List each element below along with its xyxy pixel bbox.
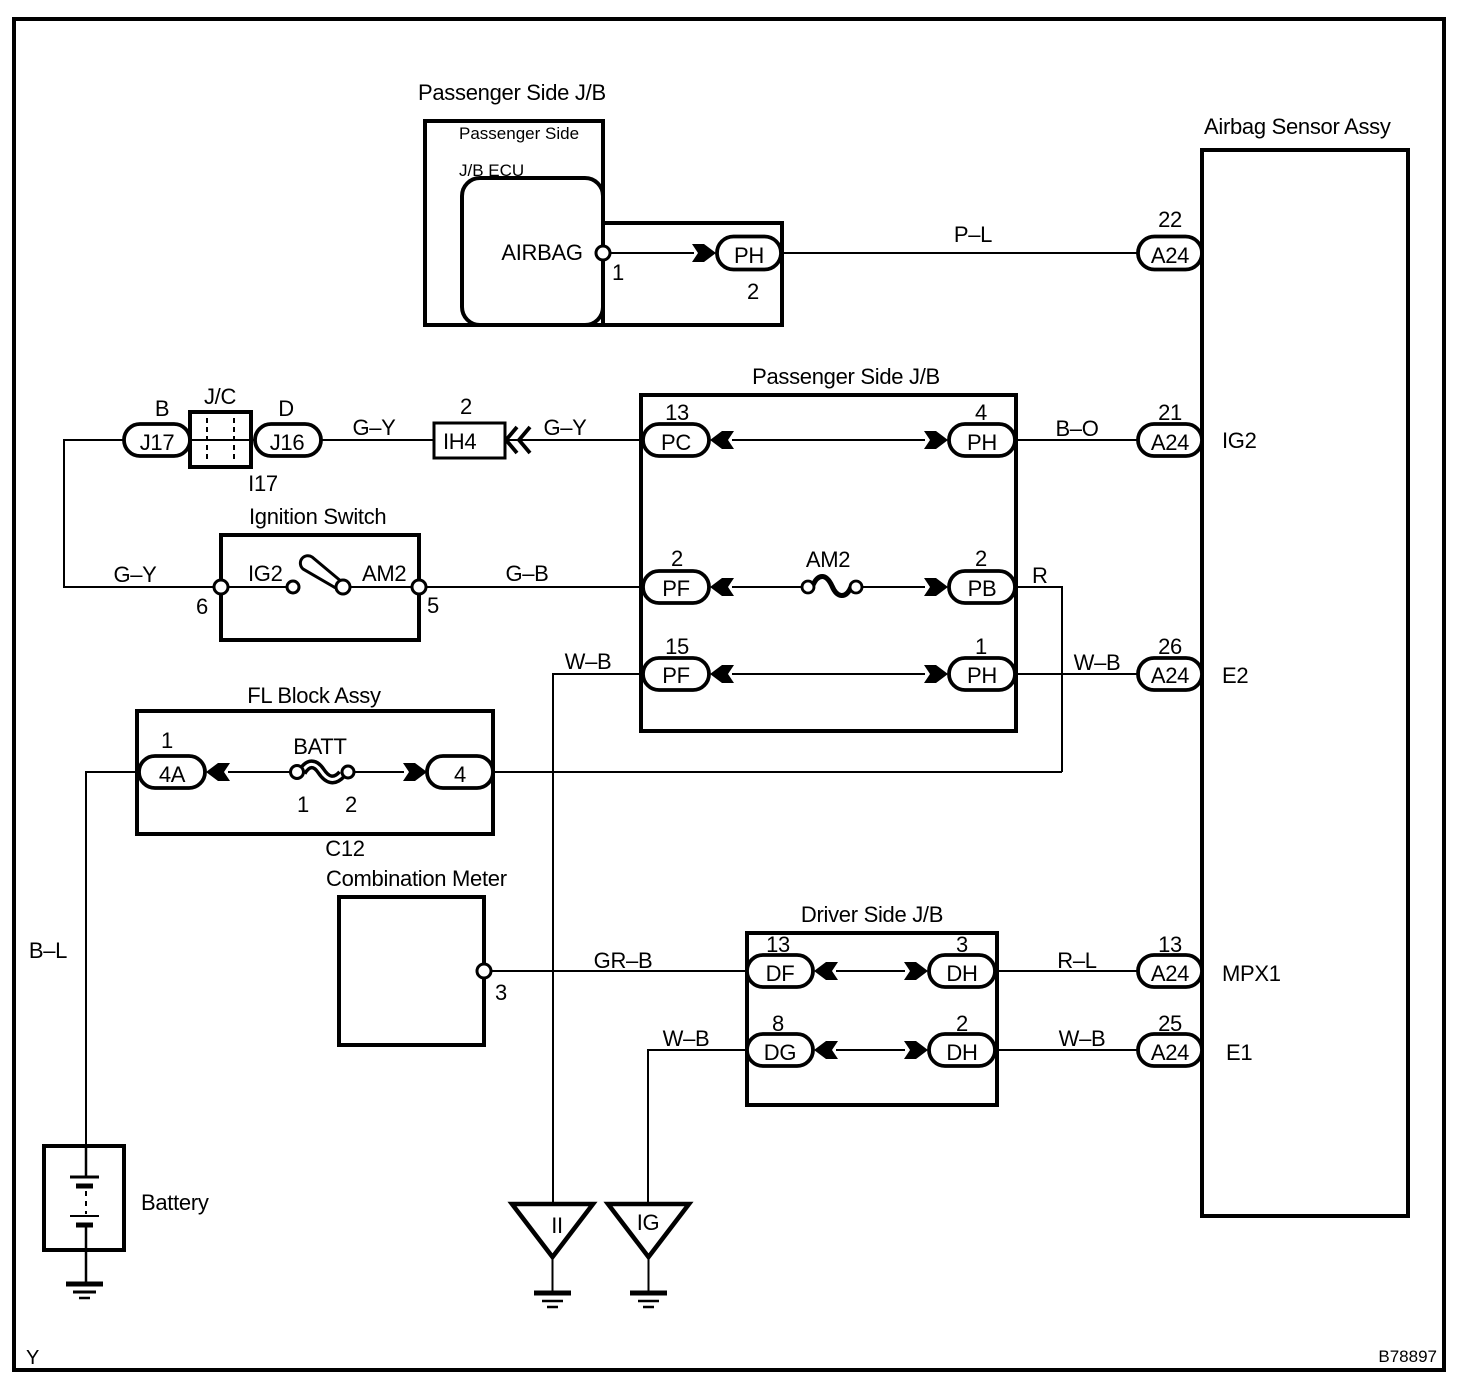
arrow out of PC <box>710 431 734 449</box>
svg-text:13: 13 <box>665 400 689 425</box>
svg-text:J17: J17 <box>140 430 175 455</box>
svg-text:D: D <box>278 396 294 421</box>
svg-text:W–B: W–B <box>1059 1026 1106 1051</box>
Airbag Sensor Assy box <box>1202 150 1408 1216</box>
connector 4A <box>139 756 205 788</box>
connector PF pin 15 <box>643 658 709 690</box>
svg-text:J16: J16 <box>270 430 305 455</box>
svg-text:GR–B: GR–B <box>594 948 653 973</box>
connector A24 pin 26 <box>1138 658 1202 690</box>
svg-text:AM2: AM2 <box>806 547 850 572</box>
wire IG to ground <box>648 1257 650 1292</box>
arrow into DH2 <box>904 1041 928 1059</box>
wire DG to DH2 <box>836 1049 905 1051</box>
wire IH4 to PC <box>505 439 643 441</box>
wire PF15 to PH1 <box>732 673 925 675</box>
svg-text:Driver Side J/B: Driver Side J/B <box>801 902 943 927</box>
Passenger Side J/B (middle) box <box>641 395 1016 731</box>
ground triangle II <box>512 1204 593 1257</box>
connector PH pin 4 <box>949 424 1015 456</box>
battery ground symbol <box>66 1284 103 1298</box>
svg-text:Battery: Battery <box>141 1190 209 1215</box>
connector J17 <box>124 424 190 456</box>
svg-text:PC: PC <box>661 430 691 455</box>
wire 4A to fusible link <box>228 771 291 773</box>
ground symbol IG <box>630 1293 667 1307</box>
connector A24 pin 25 <box>1138 1034 1202 1066</box>
svg-text:W–B: W–B <box>1074 650 1121 675</box>
arrow out of 4A <box>206 763 230 781</box>
svg-text:2: 2 <box>747 279 759 304</box>
wire link to arrow <box>354 771 404 773</box>
wire PF to fuse AM2 <box>732 586 802 588</box>
node pin 6 <box>214 580 228 594</box>
svg-text:R–L: R–L <box>1057 948 1097 973</box>
arrow out of PF15 <box>710 665 734 683</box>
switch contact circle <box>287 581 299 593</box>
connector A24 pin 13 <box>1138 955 1202 987</box>
ground symbol II <box>534 1293 571 1307</box>
wire PC to PH <box>732 439 925 441</box>
connector A24 pin 21 <box>1138 424 1202 456</box>
svg-text:B–O: B–O <box>1055 416 1098 441</box>
svg-text:4A: 4A <box>159 762 186 787</box>
wire GR-B meter to DF <box>491 970 747 972</box>
node pin 1 <box>596 246 610 260</box>
junction block: Passenger Side J/B (top) outline <box>425 121 603 325</box>
wire G-B pin5 to PF <box>426 586 643 588</box>
svg-text:1: 1 <box>161 728 173 753</box>
wire DF to DH3 <box>836 970 905 972</box>
svg-text:2: 2 <box>671 546 683 571</box>
connector PF pin 2 <box>643 571 709 603</box>
svg-text:G–B: G–B <box>505 561 548 586</box>
svg-text:BATT: BATT <box>293 734 346 759</box>
svg-text:P–L: P–L <box>954 222 992 247</box>
connector J16 <box>255 424 321 456</box>
switch lever <box>297 553 344 592</box>
svg-text:A24: A24 <box>1151 243 1189 268</box>
svg-text:1: 1 <box>297 792 309 817</box>
wire R-L DH to A24 pin 13 <box>995 970 1138 972</box>
svg-text:4: 4 <box>454 762 466 787</box>
Ignition Switch box <box>221 535 419 640</box>
arrow out of DF <box>814 962 838 980</box>
svg-text:E1: E1 <box>1226 1040 1252 1065</box>
wire J16 to IH4 <box>321 439 434 441</box>
wire B-O to A24 pin 21 <box>1015 439 1138 441</box>
svg-text:W–B: W–B <box>565 649 612 674</box>
svg-text:A24: A24 <box>1151 430 1189 455</box>
wire II to ground <box>552 1257 554 1292</box>
connector DG <box>747 1034 813 1066</box>
svg-text:26: 26 <box>1158 634 1182 659</box>
svg-text:DF: DF <box>766 961 795 986</box>
wire pivot to pin 5 <box>350 586 412 588</box>
svg-text:DG: DG <box>764 1040 796 1065</box>
arrow out of DG <box>814 1041 838 1059</box>
svg-text:R: R <box>1032 563 1048 588</box>
connector DF <box>747 955 813 987</box>
svg-text:Ignition Switch: Ignition Switch <box>249 504 386 529</box>
svg-text:Passenger Side J/B: Passenger Side J/B <box>418 80 606 105</box>
junction block: Passenger Side J/B (top) extension outline <box>603 223 782 325</box>
svg-text:A24: A24 <box>1151 961 1189 986</box>
arrow into PH1 <box>924 665 948 683</box>
wire W-B PH1 to A24 pin 26 <box>1015 673 1138 675</box>
svg-text:IG2: IG2 <box>248 561 283 586</box>
wire through J/C <box>190 439 255 441</box>
svg-text:E2: E2 <box>1222 663 1248 688</box>
svg-text:W–B: W–B <box>663 1026 710 1051</box>
svg-text:PH: PH <box>734 243 764 268</box>
connector PH (top) <box>717 237 781 270</box>
svg-text:G–Y: G–Y <box>352 415 396 440</box>
svg-text:B–L: B–L <box>29 938 67 963</box>
connector DH pin 3 <box>929 955 995 987</box>
svg-text:FL Block Assy: FL Block Assy <box>247 683 381 708</box>
arrow into 4 <box>403 763 427 781</box>
node pin 3 <box>477 964 491 978</box>
svg-text:4: 4 <box>975 400 987 425</box>
svg-text:Airbag Sensor Assy: Airbag Sensor Assy <box>1204 114 1391 139</box>
connector PC <box>643 424 709 456</box>
svg-text:A24: A24 <box>1151 1040 1189 1065</box>
svg-text:2: 2 <box>975 546 987 571</box>
svg-text:I17: I17 <box>248 471 278 496</box>
ground triangle IG <box>608 1204 689 1257</box>
svg-text:IG: IG <box>637 1210 660 1235</box>
svg-text:PF: PF <box>662 576 690 601</box>
wire W-B from DG down to IG ground <box>648 1050 747 1204</box>
svg-text:5: 5 <box>427 593 439 618</box>
connector PB <box>949 571 1015 603</box>
arrow into PB <box>924 578 948 596</box>
wire AIRBAG pin 1 to connector PH <box>603 252 694 254</box>
battery box <box>44 1146 124 1250</box>
chevrons <box>506 427 530 453</box>
wire pin6 to contact <box>228 586 287 588</box>
svg-text:J/C: J/C <box>204 384 237 409</box>
svg-text:DH: DH <box>946 1040 977 1065</box>
node pin 5 <box>412 580 426 594</box>
svg-text:21: 21 <box>1158 400 1182 425</box>
wire J17 down to ignition switch pin 6 <box>64 440 214 587</box>
svg-text:II: II <box>551 1213 563 1238</box>
svg-text:G–Y: G–Y <box>543 415 587 440</box>
svg-text:2: 2 <box>460 394 472 419</box>
svg-text:AIRBAG: AIRBAG <box>501 240 582 265</box>
arrow into DH3 <box>904 962 928 980</box>
connector PH pin 1 <box>949 658 1015 690</box>
svg-text:1: 1 <box>975 634 987 659</box>
wire W-B down from PF15 <box>553 674 643 1204</box>
svg-text:IG2: IG2 <box>1222 428 1257 453</box>
arrow into PH4 <box>924 431 948 449</box>
wire R from PB down to FL block output <box>1015 587 1062 772</box>
wire B-L from battery to 4A <box>86 772 139 1146</box>
svg-text:2: 2 <box>345 792 357 817</box>
arrow out of PF2 <box>710 578 734 596</box>
svg-text:PH: PH <box>967 430 997 455</box>
wire 4 to R junction <box>493 771 1062 773</box>
Combination Meter box <box>339 897 484 1045</box>
svg-text:PB: PB <box>968 576 997 601</box>
svg-text:3: 3 <box>495 980 507 1005</box>
svg-text:A24: A24 <box>1151 663 1189 688</box>
fuse AM2 symbol <box>802 577 862 596</box>
svg-text:G–Y: G–Y <box>113 562 157 587</box>
connector A24 pin 22 <box>1138 237 1202 270</box>
wire fuse to PB <box>862 586 925 588</box>
battery internal symbol <box>70 1148 99 1283</box>
svg-text:PF: PF <box>662 663 690 688</box>
connector DH pin 2 <box>929 1034 995 1066</box>
FL Block Assy box <box>137 711 493 834</box>
fusible link symbol <box>291 764 355 779</box>
connector 4 <box>427 756 493 788</box>
svg-text:Passenger Side: Passenger Side <box>459 124 579 143</box>
svg-text:15: 15 <box>665 634 689 659</box>
svg-text:C12: C12 <box>325 836 365 861</box>
arrow into PH <box>692 244 716 262</box>
svg-text:IH4: IH4 <box>443 429 476 454</box>
svg-text:MPX1: MPX1 <box>1222 961 1281 986</box>
svg-text:B78897: B78897 <box>1378 1347 1437 1366</box>
connector IH4 <box>434 423 505 458</box>
svg-text:22: 22 <box>1158 207 1182 232</box>
svg-text:Y: Y <box>26 1347 39 1369</box>
svg-text:Passenger Side J/B: Passenger Side J/B <box>752 364 940 389</box>
switch pivot circle <box>336 580 350 594</box>
wire P-L from PH to A24 pin 22 <box>781 252 1138 254</box>
svg-text:6: 6 <box>196 594 208 619</box>
J/C dashed internals <box>206 418 208 461</box>
ECU internal rounded block <box>462 178 603 325</box>
svg-text:B: B <box>155 396 169 421</box>
svg-text:Combination Meter: Combination Meter <box>326 866 507 891</box>
wire W-B DH2 to A24 pin 25 <box>995 1049 1138 1051</box>
svg-text:1: 1 <box>612 260 624 285</box>
svg-text:AM2: AM2 <box>362 561 406 586</box>
svg-text:DH: DH <box>946 961 977 986</box>
svg-text:PH: PH <box>967 663 997 688</box>
junction connector box <box>190 412 251 467</box>
Driver Side J/B box <box>747 933 997 1105</box>
